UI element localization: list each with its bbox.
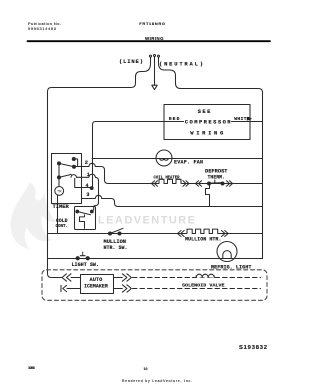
svg-text:WHITE: WHITE <box>234 116 250 122</box>
plug prong line side <box>150 55 152 57</box>
cold control contacts <box>76 210 79 213</box>
svg-text:REFRIG. LIGHT: REFRIG. LIGHT <box>211 264 252 270</box>
connector chevrons icemaker out lower <box>122 285 131 292</box>
wire contact 1 to cold control <box>76 174 98 211</box>
connector chevrons icemaker feed <box>62 274 71 281</box>
wire neutral conductor from plug <box>159 60 263 92</box>
wire contact C to defrost line <box>74 163 110 183</box>
lamp REFRIG LIGHT <box>217 242 237 262</box>
svg-text:TM: TM <box>57 190 61 194</box>
switch LIGHT SW <box>76 257 79 260</box>
wire contact 4 to riser <box>75 187 93 189</box>
svg-text:(LINE): (LINE) <box>119 58 143 65</box>
svg-text:LIGHT SW.: LIGHT SW. <box>72 262 100 268</box>
wire defrost line left segment <box>108 183 158 185</box>
timer lever D <box>59 174 71 177</box>
svg-text:AUTO: AUTO <box>90 277 103 283</box>
timer common vertical A-D-motor <box>58 163 60 186</box>
dashed enclosure auto icemaker harness <box>42 270 267 301</box>
svg-text:WIRING: WIRING <box>145 36 164 41</box>
svg-text:5995314480: 5995314480 <box>28 27 56 31</box>
timer contact D <box>58 176 61 179</box>
svg-text:(NEUTRAL): (NEUTRAL) <box>159 60 203 67</box>
svg-text:2: 2 <box>85 160 88 166</box>
svg-text:ICEMAKER: ICEMAKER <box>84 284 108 290</box>
junction contact 4 <box>90 187 93 190</box>
svg-text:TIMER: TIMER <box>53 204 70 210</box>
plug prong neutral side <box>158 55 160 57</box>
timer contact A <box>58 162 61 165</box>
wire contact 3 to neutral bus <box>82 195 263 206</box>
svg-text:Publication No.: Publication No. <box>28 22 61 26</box>
svg-text:SEE: SEE <box>198 108 211 115</box>
header rule <box>28 40 271 42</box>
wire line conductor from plug <box>48 60 151 91</box>
svg-text:COIL HEATER: COIL HEATER <box>154 176 180 181</box>
motor evaporator fan <box>156 150 172 166</box>
connector chevrons right of coil heater <box>183 181 189 187</box>
connector chevrons left of coil heater <box>152 181 158 187</box>
wire dashed upper to solenoid <box>133 277 261 279</box>
connector icemaker lower stub <box>61 285 67 291</box>
wire icemaker feed <box>71 277 81 279</box>
ground <box>152 85 157 89</box>
arrowhead at WHITE lead <box>247 117 251 120</box>
wire defrost line right segment <box>183 183 263 185</box>
connector chevrons icemaker out upper <box>122 274 131 281</box>
svg-text:1: 1 <box>87 172 90 178</box>
svg-text:THERM.: THERM. <box>208 174 226 180</box>
svg-text:HTR. SW.: HTR. SW. <box>104 245 128 251</box>
wire mullion heater line right <box>219 233 263 235</box>
timer contact 1 arc <box>71 175 76 178</box>
thermostat DEFROST THERM contacts <box>208 182 211 185</box>
timer contact 4 stem <box>74 178 76 187</box>
connector chevrons after defrost therm <box>227 181 233 187</box>
svg-text:3: 3 <box>86 192 89 198</box>
timer contact B with hook <box>72 158 75 161</box>
svg-text:EVAP. FAN: EVAP. FAN <box>174 160 203 166</box>
plug prong ground pin <box>154 55 156 57</box>
connector chevrons left of mullion heater <box>178 231 185 237</box>
wire icemaker out upper <box>114 277 123 279</box>
wire ground stem <box>154 60 156 84</box>
timer contact C <box>73 165 76 168</box>
svg-text:SOLENOID VALVE: SOLENOID VALVE <box>182 282 225 288</box>
box COLD CONT <box>75 207 96 230</box>
wire icemaker lower feed <box>67 288 81 290</box>
svg-text:COLD: COLD <box>56 218 68 224</box>
svg-text:CONT.: CONT. <box>56 223 69 229</box>
solenoid SOLENOID VALVE coil <box>196 274 214 277</box>
timer box <box>52 154 82 204</box>
wire timer riser <box>92 125 94 188</box>
heater COIL HEATER element <box>158 179 183 183</box>
connector chevrons before defrost therm <box>196 181 202 187</box>
svg-text:FRT18NRG: FRT18NRG <box>139 21 165 26</box>
switch MULLION HTR SW <box>109 232 112 235</box>
heater MULLION HTR element <box>186 229 219 233</box>
svg-text:COMPRESSOR: COMPRESSOR <box>185 118 231 125</box>
cold control bellows meander <box>80 215 85 229</box>
wire right bus <box>262 93 264 259</box>
wire evaporator fan line <box>92 158 263 160</box>
svg-text:MULLION HTR.: MULLION HTR. <box>185 237 222 243</box>
wire timer motor lead down <box>57 195 59 233</box>
svg-text:RED: RED <box>169 116 180 122</box>
wire mullion heater line left <box>48 233 187 235</box>
connector chevrons right of mullion heater <box>222 231 229 237</box>
box AUTO ICEMAKER <box>81 275 114 294</box>
wire compressor feed <box>93 122 184 125</box>
wire icemaker out lower <box>114 288 123 290</box>
svg-text:10/98: 10/98 <box>28 366 35 370</box>
wire left bus <box>48 92 63 278</box>
svg-text:S193832: S193832 <box>239 345 267 351</box>
timer motor TM <box>55 187 64 196</box>
svg-text:Rendered by LeadVenture, Inc.: Rendered by LeadVenture, Inc. <box>122 379 192 383</box>
wire dashed lower <box>133 288 261 290</box>
watermark logo flame <box>11 182 56 249</box>
svg-text:LEADVENTURE: LEADVENTURE <box>98 215 195 227</box>
box SEE COMPRESSOR WIRING <box>164 105 250 140</box>
wire refrigerator light line <box>48 258 263 260</box>
wire compressor to neutral bus <box>232 121 263 123</box>
timer lever A-C <box>59 163 74 166</box>
defrost thermostat bypass meander <box>206 184 210 207</box>
svg-text:10: 10 <box>144 367 148 371</box>
